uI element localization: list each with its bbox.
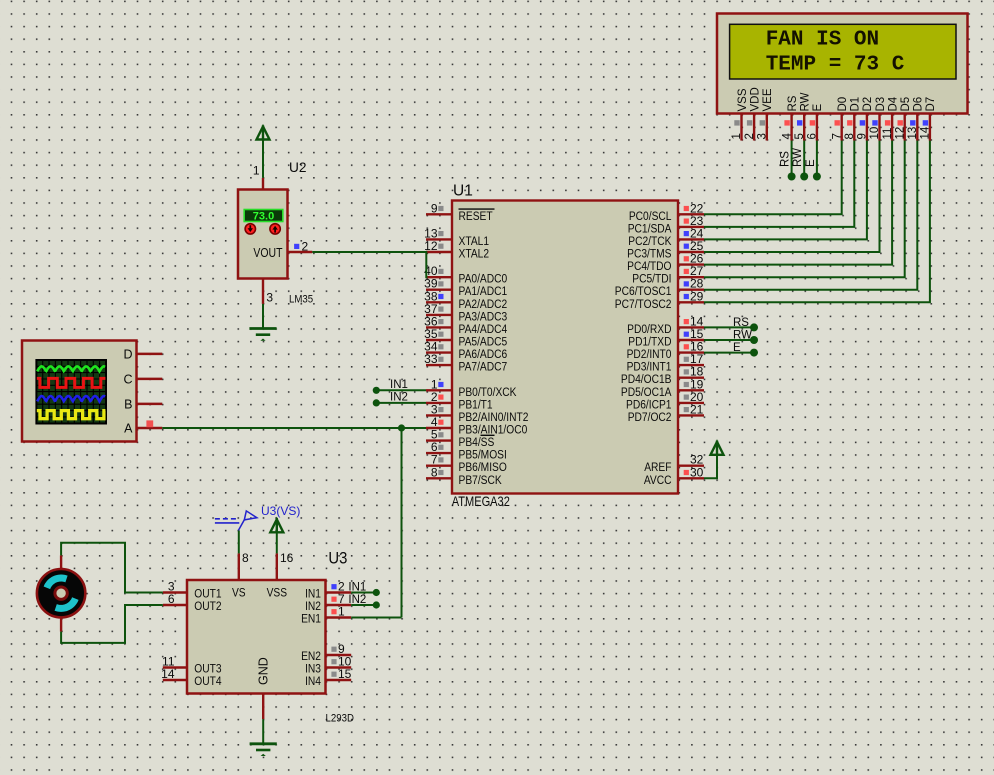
LCD pin label D2 — [862, 97, 874, 112]
U1 pin 5 (PB4/SS) left stub — [426, 428, 452, 442]
U1 pin 2 (PB1/T1) left stub — [426, 390, 452, 404]
U1 pin 21 (PD7/OC2) right stub — [678, 402, 704, 416]
U3 pin label IN1 — [305, 588, 321, 601]
wire U3 IN2 terminal — [351, 601, 380, 608]
power symbol VCC at AVCC — [711, 441, 724, 455]
oscilloscope screen with graticule — [36, 360, 106, 424]
U3 pin label GND (rotated) — [257, 657, 271, 685]
U1 pin label PB1/T1 — [459, 399, 493, 412]
svg-text:D3: D3 — [875, 97, 887, 112]
svg-text:D0: D0 — [837, 97, 849, 112]
U1 pin label PB6/MISO — [459, 461, 508, 474]
U1 pin label PD6/ICP1 — [626, 399, 672, 412]
U1 pin 8 (PB7/SCK) left stub — [426, 465, 452, 479]
svg-text:PA2/ADC2: PA2/ADC2 — [459, 298, 508, 311]
U3 pin 1 (EN1) stub — [326, 605, 352, 619]
LCD pin label D0 — [837, 97, 849, 112]
U1 pin 18 (PD4/OC1B) right stub — [678, 365, 704, 379]
svg-text:PA7/ADC7: PA7/ADC7 — [459, 361, 508, 374]
LCD pin 7 stub + number — [831, 114, 843, 141]
svg-text:12: 12 — [424, 239, 438, 253]
U3 pin label EN2 — [301, 650, 321, 663]
svg-text:8: 8 — [242, 551, 249, 565]
U3 pin 11 (OUT3) stub — [162, 655, 187, 669]
U2 up/down buttons — [245, 224, 280, 234]
U1 pin 1 (PB0/T0/XCK) left stub — [426, 377, 452, 391]
U1 pin label PD1/TXD — [628, 336, 671, 349]
svg-text:21: 21 — [690, 402, 704, 416]
LCD pin label D3 — [875, 97, 887, 112]
svg-text:TEMP = 73 C: TEMP = 73 C — [766, 53, 905, 76]
svg-text:D2: D2 — [862, 97, 874, 112]
LCD pin label RS — [787, 95, 799, 111]
LCD pin label D5 — [900, 97, 912, 112]
U1 pin label PD5/OC1A — [621, 386, 672, 399]
LCD pin 1 stub + number — [731, 114, 743, 141]
U1 pin 25 (PC3/TMS) right stub — [678, 239, 704, 253]
svg-text:PC0/SCL: PC0/SCL — [629, 210, 672, 223]
ground symbol below U3 — [250, 744, 277, 756]
U1 pin label PD2/INT0 — [627, 348, 672, 361]
wire U2 pin3 to ground — [262, 304, 264, 328]
U3 net label IN2 — [348, 594, 366, 606]
wire U3 GND to ground — [262, 719, 264, 743]
wire motor top to U3 OUT1 — [61, 543, 163, 593]
U3 pin 9 (EN2) stub — [326, 642, 352, 656]
U1 pin label PC6/TOSC1 — [615, 285, 672, 298]
oscilloscope channel C pin — [123, 373, 162, 387]
LCD pin 6 stub + number — [807, 114, 819, 141]
probe label U3(VS) — [261, 504, 300, 518]
svg-text:RW: RW — [800, 92, 812, 111]
svg-text:RS: RS — [780, 151, 792, 167]
svg-text:6: 6 — [807, 133, 819, 139]
svg-text:E: E — [733, 342, 741, 354]
U1 pin 35 (PA5/ADC5) left stub — [424, 327, 452, 341]
U1 pin 23 (PC1/SDA) right stub — [678, 214, 704, 228]
svg-text:1: 1 — [731, 133, 743, 139]
U3 pin label VSS — [267, 587, 287, 600]
U1 pin label PB0/T0/XCK — [459, 386, 517, 399]
svg-text:PC7/TOSC2: PC7/TOSC2 — [615, 298, 672, 311]
marker square at scope channel A — [146, 420, 153, 427]
U1 pin label XTAL2 — [459, 248, 490, 261]
U3 pin label IN2 — [305, 600, 321, 613]
U3 pin label OUT4 — [194, 675, 221, 688]
svg-text:IN2: IN2 — [305, 600, 321, 613]
wire U1 RW net with terminal dot — [704, 330, 758, 345]
svg-text:PD3/INT1: PD3/INT1 — [627, 361, 672, 374]
svg-text:PD4/OC1B: PD4/OC1B — [621, 373, 672, 386]
svg-text:3: 3 — [757, 133, 769, 139]
svg-text:PD0/RXD: PD0/RXD — [627, 323, 671, 336]
U1 pin 40 (PA0/ADC0) left stub — [424, 264, 452, 278]
LCD screen — [730, 24, 956, 79]
wire LCD D1 to U1 PC1 — [704, 141, 854, 227]
U3 pin label VS — [232, 587, 246, 600]
svg-text:PC6/TOSC1: PC6/TOSC1 — [615, 285, 672, 298]
svg-text:1: 1 — [338, 605, 345, 619]
U3 pin 10 (IN3) stub — [326, 655, 352, 669]
LCD pin label VSS — [737, 88, 749, 111]
LCD pin 3 stub + number — [757, 114, 769, 141]
svg-text:EN2: EN2 — [301, 650, 321, 663]
wire motor bottom to U3 OUT2 — [61, 605, 163, 643]
U1 pin label PC0/SCL — [629, 210, 672, 223]
U2 pin 1 stub — [253, 164, 263, 190]
svg-text:PB7/SCK: PB7/SCK — [459, 474, 503, 487]
svg-text:VDD: VDD — [749, 87, 761, 111]
U1 pin 32 (AREF) right stub — [678, 453, 704, 467]
LCD pin 4 stub + number — [781, 114, 793, 141]
U3 pin 2 (IN1) stub — [326, 580, 352, 594]
svg-text:PB6/MISO: PB6/MISO — [459, 461, 508, 474]
wire LCD RS with terminal dot and label — [780, 141, 796, 181]
svg-text:PD5/OC1A: PD5/OC1A — [621, 386, 672, 399]
voltage probe symbol U3(VS) — [215, 511, 257, 531]
wire scope A to U1 PB3 — [162, 427, 426, 429]
wire LCD E with terminal dot and label — [805, 141, 821, 181]
label U3 — [328, 550, 347, 568]
wire U3 EN1 to junction — [351, 617, 401, 619]
U1 pin label PA1/ADC1 — [459, 285, 508, 298]
svg-text:D: D — [123, 348, 132, 362]
U3 net label IN1 — [348, 582, 366, 594]
label ATMEGA32 — [452, 494, 510, 509]
oscilloscope channel A pin — [124, 422, 162, 436]
LCD text line 1 FAN IS ON — [766, 29, 879, 52]
junction node at PB3 wire — [398, 424, 405, 431]
svg-text:D7: D7 — [925, 97, 937, 112]
svg-text:PC5/TDI: PC5/TDI — [632, 273, 671, 286]
LCD pin 14 stub + number — [920, 114, 932, 141]
U1 pin label PD3/INT1 — [627, 361, 672, 374]
U1 pin 37 (PA3/ADC3) left stub — [424, 302, 452, 316]
svg-text:PA1/ADC1: PA1/ADC1 — [459, 285, 508, 298]
U1 pin 36 (PA4/ADC4) left stub — [424, 314, 452, 328]
label LM35 — [289, 293, 313, 306]
scope waveform channel A (yellow square) — [37, 411, 106, 419]
scope waveform channel D (green sine) — [37, 366, 105, 371]
U1 pin label PA6/ADC6 — [459, 348, 508, 361]
svg-text:12: 12 — [894, 127, 906, 140]
svg-text:33: 33 — [424, 352, 438, 366]
svg-text:PC3/TMS: PC3/TMS — [627, 248, 671, 261]
svg-text:IN2: IN2 — [390, 392, 408, 404]
power symbol VCC at U3 VSS — [270, 518, 283, 532]
svg-text:PC2/TCK: PC2/TCK — [628, 235, 672, 248]
svg-text:D4: D4 — [887, 96, 899, 111]
U1 pin label PA2/ADC2 — [459, 298, 508, 311]
U1 pin 38 (PA2/ADC2) left stub — [424, 289, 452, 303]
sensor U2 LM35 body — [238, 190, 288, 279]
U1 pin label AVCC — [644, 474, 672, 487]
label U1 — [453, 183, 473, 200]
U1 pin label PC2/TCK — [628, 235, 672, 248]
svg-text:GND: GND — [257, 657, 271, 685]
U1 pin label PB7/SCK — [459, 474, 503, 487]
wire U1 IN2 net with terminal dot — [373, 392, 426, 407]
LCD pin 11 stub + number — [882, 114, 894, 141]
svg-text:VS: VS — [232, 587, 246, 600]
U2 pin 3 stub — [263, 279, 273, 305]
svg-text:9: 9 — [857, 133, 869, 139]
svg-text:EN1: EN1 — [301, 613, 321, 626]
svg-text:PD2/INT0: PD2/INT0 — [627, 348, 672, 361]
svg-text:PC1/SDA: PC1/SDA — [628, 223, 672, 236]
wire U3 IN1 terminal — [351, 589, 380, 596]
svg-text:PA0/ADC0: PA0/ADC0 — [459, 273, 508, 286]
LCD pin 10 stub + number — [869, 114, 881, 141]
svg-text:8: 8 — [844, 133, 856, 139]
U1 pin label PC5/TDI — [632, 273, 671, 286]
svg-text:10: 10 — [869, 127, 881, 140]
svg-text:VSS: VSS — [267, 587, 287, 600]
svg-text:PB5/MOSI: PB5/MOSI — [459, 449, 507, 462]
motor top pin stub — [60, 555, 62, 569]
svg-text:8: 8 — [431, 465, 438, 479]
U3 pin label IN4 — [305, 675, 321, 688]
svg-text:PD6/ICP1: PD6/ICP1 — [626, 399, 672, 412]
U1 pin 34 (PA6/ADC6) left stub — [424, 340, 452, 354]
svg-text:AVCC: AVCC — [644, 474, 672, 487]
LCD pin label E — [812, 104, 824, 112]
U1 pin label PA4/ADC4 — [459, 323, 508, 336]
wire LCD D0 to U1 PC0 — [704, 141, 842, 215]
svg-text:ATMEGA32: ATMEGA32 — [452, 494, 510, 509]
svg-text:U3: U3 — [328, 550, 347, 568]
U3 pin 15 (IN4) stub — [326, 667, 352, 681]
svg-text:OUT3: OUT3 — [194, 663, 221, 676]
U1 pin label AREF — [644, 461, 671, 474]
U1 pin 26 (PC4/TDO) right stub — [678, 252, 704, 266]
U1 pin 22 (PC0/SCL) right stub — [678, 201, 704, 215]
wire U1 IN1 net with terminal dot — [373, 379, 426, 394]
U1 pin 24 (PC2/TCK) right stub — [678, 226, 704, 240]
wire U1 E net with terminal dot — [704, 342, 758, 357]
U1 pin label PC7/TOSC2 — [615, 298, 672, 311]
U1 pin 3 (PB2/AIN0/INT2) left stub — [426, 402, 452, 416]
U1 pin label PC4/TDO — [627, 260, 672, 273]
wire LCD D5 to U1 PC5 — [704, 141, 905, 278]
motor bottom pin stub — [60, 617, 62, 631]
U1 pin 14 (PD0/RXD) right stub — [678, 314, 704, 328]
svg-text:RW: RW — [733, 330, 752, 342]
LCD pin 2 stub + number — [744, 114, 756, 141]
U1 pin 30 (AVCC) right stub — [678, 465, 704, 479]
svg-text:PA5/ADC5: PA5/ADC5 — [459, 336, 508, 349]
svg-text:XTAL2: XTAL2 — [459, 248, 490, 261]
svg-text:A: A — [124, 422, 133, 436]
U1 pin label XTAL1 — [459, 235, 490, 248]
svg-text:13: 13 — [907, 127, 919, 140]
U1 pin 4 (PB3/AIN1/OC0) left stub — [426, 415, 452, 429]
U3 pin label OUT3 — [194, 663, 221, 676]
motor/fan M1 — [37, 569, 85, 617]
svg-text:FAN IS ON: FAN IS ON — [766, 29, 879, 52]
svg-text:9: 9 — [431, 201, 438, 215]
svg-text:7: 7 — [831, 133, 843, 139]
U3 GND pin stub — [262, 694, 264, 720]
svg-text:PA4/ADC4: PA4/ADC4 — [459, 323, 508, 336]
svg-text:PA3/ADC3: PA3/ADC3 — [459, 311, 508, 324]
U2 pin 2 stub (VOUT) — [288, 240, 313, 254]
oscilloscope channel D pin — [123, 348, 162, 362]
wire U2 pin1 to power — [262, 140, 264, 178]
U1 pin 33 (PA7/ADC7) left stub — [424, 352, 452, 366]
svg-text:VOUT: VOUT — [253, 247, 282, 260]
U1 pin 28 (PC6/TOSC1) right stub — [678, 277, 704, 291]
svg-text:PC4/TDO: PC4/TDO — [627, 260, 672, 273]
oscilloscope channel B pin — [124, 398, 162, 412]
svg-text:E: E — [805, 159, 817, 167]
U1 pin 9 (RESET) left stub — [426, 201, 452, 215]
LCD text line 2 TEMP = 73 C — [766, 53, 905, 76]
svg-text:B: B — [124, 398, 132, 412]
svg-text:OUT4: OUT4 — [194, 675, 221, 688]
U1 pin label PA5/ADC5 — [459, 336, 508, 349]
IC U1 ATMEGA32 body — [452, 201, 678, 494]
U1 pin label PC3/TMS — [627, 248, 671, 261]
wire LCD D3 to U1 PC3 — [704, 141, 880, 253]
svg-text:U1: U1 — [453, 183, 473, 200]
LCD pin label D4 — [887, 96, 899, 111]
svg-text:D1: D1 — [850, 97, 862, 112]
wire U3 VS up to probe — [238, 530, 240, 553]
svg-text:6: 6 — [168, 592, 175, 606]
U1 pin label PA7/ADC7 — [459, 361, 508, 374]
power symbol VCC at U2 — [257, 125, 270, 139]
svg-text:IN1: IN1 — [305, 588, 321, 601]
svg-text:IN3: IN3 — [305, 663, 321, 676]
LCD pin 12 stub + number — [894, 114, 906, 141]
wire LCD RW with terminal dot and label — [792, 141, 808, 181]
svg-text:PB1/T1: PB1/T1 — [459, 399, 493, 412]
wire junction down to U3 EN1 — [401, 428, 403, 618]
LCD pin label VEE — [762, 88, 774, 111]
svg-text:14: 14 — [161, 667, 175, 681]
svg-text:U3(VS): U3(VS) — [261, 504, 300, 518]
scope waveform channel B (blue sine) — [37, 396, 105, 401]
svg-text:3: 3 — [266, 291, 273, 305]
LCD pin 8 stub + number — [844, 114, 856, 141]
U2 value display 73.0 — [244, 210, 283, 223]
svg-text:C: C — [123, 373, 132, 387]
oscilloscope body — [22, 341, 137, 442]
U1 pin label PB2/AIN0/INT2 — [459, 411, 529, 424]
ground symbol below U2 — [249, 329, 276, 341]
svg-text:D5: D5 — [900, 97, 912, 112]
wire U1 RS net with terminal dot — [704, 317, 758, 332]
label U2 — [289, 160, 307, 175]
svg-text:OUT1: OUT1 — [194, 588, 221, 601]
U1 pin label PB3/AIN1/OC0 — [459, 424, 528, 437]
U1 pin 29 (PC7/TOSC2) right stub — [678, 289, 704, 303]
wire LCD D6 to U1 PC6 — [704, 141, 917, 290]
LCD pin 5 stub + number — [794, 114, 806, 141]
U3 pin 16 (VSS) stub — [277, 551, 294, 580]
U1 pin 12 (XTAL2) left stub — [424, 239, 452, 253]
U1 pin 19 (PD5/OC1A) right stub — [678, 377, 704, 391]
svg-text:XTAL1: XTAL1 — [459, 235, 490, 248]
svg-text:AREF: AREF — [644, 461, 671, 474]
svg-text:PA6/ADC6: PA6/ADC6 — [459, 348, 508, 361]
U3 pin label OUT2 — [194, 600, 221, 613]
U3 pin 3 (OUT1) stub — [163, 580, 187, 594]
U1 pin label PB4/SS — [459, 435, 495, 449]
svg-text:PB0/T0/XCK: PB0/T0/XCK — [459, 386, 517, 399]
U1 pin 7 (PB6/MISO) left stub — [426, 453, 452, 467]
LCD pin label D7 — [925, 97, 937, 112]
LCD pin 9 stub + number — [857, 114, 869, 141]
U1 pin label PD7/OC2 — [628, 411, 672, 424]
U3 pin 6 (OUT2) stub — [163, 592, 187, 606]
U3 pin 14 (OUT4) stub — [161, 667, 187, 681]
svg-text:2: 2 — [744, 133, 756, 139]
U1 pin 20 (PD6/ICP1) right stub — [678, 390, 704, 404]
U1 pin label PA3/ADC3 — [459, 311, 508, 324]
svg-text:2: 2 — [302, 240, 309, 254]
U1 pin label PD4/OC1B — [621, 373, 672, 386]
svg-text:PB2/AIN0/INT2: PB2/AIN0/INT2 — [459, 411, 529, 424]
svg-text:73.0: 73.0 — [253, 211, 274, 223]
svg-text:16: 16 — [280, 551, 294, 565]
svg-text:RESET: RESET — [459, 210, 493, 223]
svg-text:U2: U2 — [289, 160, 307, 175]
U1 pin 15 (PD1/TXD) right stub — [678, 327, 704, 341]
wire LCD D4 to U1 PC4 — [704, 141, 892, 265]
U1 pin 17 (PD3/INT1) right stub — [678, 352, 704, 366]
svg-text:PB4/SS: PB4/SS — [459, 436, 495, 449]
U2 pin label VOUT — [253, 247, 282, 260]
svg-text:PD1/TXD: PD1/TXD — [628, 336, 671, 349]
svg-text:VEE: VEE — [762, 88, 774, 111]
svg-text:1: 1 — [253, 164, 260, 178]
IC U3 L293D body — [187, 580, 326, 694]
U3 pin 8 (VS) stub — [239, 551, 249, 580]
svg-text:RS: RS — [787, 95, 799, 111]
svg-text:RW: RW — [792, 148, 804, 167]
LCD module LCD1 body — [717, 14, 968, 114]
svg-text:11: 11 — [882, 128, 894, 140]
LCD pin label D6 — [913, 97, 925, 112]
svg-text:VSS: VSS — [737, 88, 749, 111]
LCD pin label RW — [800, 92, 812, 111]
LCD pin label VDD — [749, 87, 761, 111]
svg-text:L293D: L293D — [326, 712, 355, 725]
U1 pin 13 (XTAL1) left stub — [424, 226, 452, 240]
svg-text:IN4: IN4 — [305, 675, 321, 688]
wire LCD D2 to U1 PC2 — [704, 141, 867, 240]
svg-text:IN1: IN1 — [390, 379, 408, 391]
svg-text:29: 29 — [690, 289, 704, 303]
svg-text:5: 5 — [794, 133, 806, 139]
U1 pin label PD0/RXD — [627, 323, 671, 336]
svg-text:D6: D6 — [913, 97, 925, 112]
wire U2 VOUT to U1 PA0 — [312, 252, 427, 277]
U1 pin 39 (PA1/ADC1) left stub — [424, 277, 452, 291]
wire LCD D7 to U1 PC7 — [704, 141, 930, 303]
LCD pin 13 stub + number — [907, 114, 919, 141]
LCD pin label D1 — [850, 97, 862, 112]
scope waveform channel C (red square) — [37, 378, 106, 387]
U1 pin label PA0/ADC0 — [459, 273, 508, 286]
svg-text:RS: RS — [733, 317, 749, 329]
U1 pin 27 (PC5/TDI) right stub — [678, 264, 704, 278]
svg-text:14: 14 — [920, 126, 932, 139]
label L293D — [326, 712, 355, 725]
U1 pin 6 (PB5/MOSI) left stub — [426, 440, 452, 454]
